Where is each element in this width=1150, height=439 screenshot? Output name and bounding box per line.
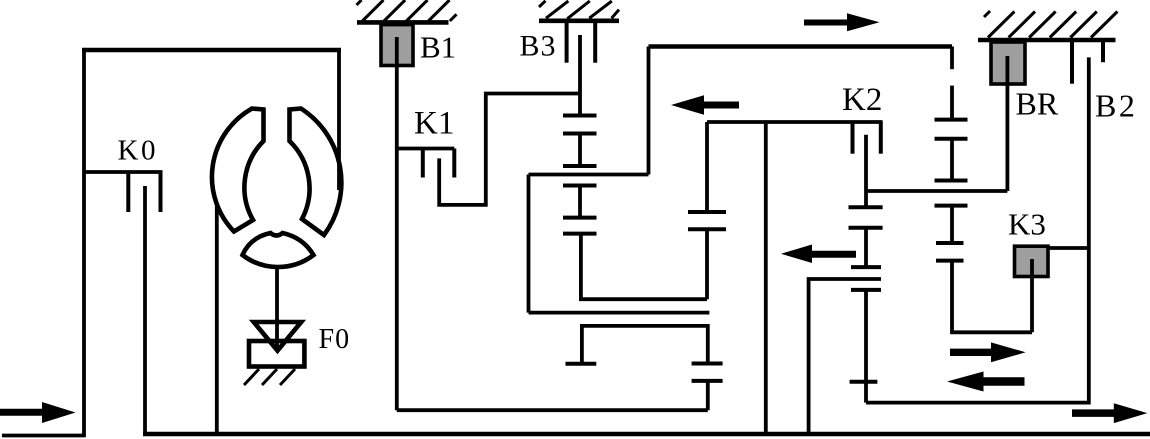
brake B3 plates [565, 23, 569, 63]
wire K2 column lower segment [864, 290, 868, 403]
brake BR housing hatch [978, 11, 1117, 40]
wire B1 shaft bottom horizontal [397, 408, 708, 412]
clutch K0 [84, 172, 163, 212]
gear bar F [563, 232, 597, 236]
wire B3 sun shaft [578, 35, 582, 116]
clutch K1 [397, 149, 455, 178]
wire reverse line [809, 279, 881, 434]
wire right column segment R2-R3 [950, 139, 954, 181]
gear bar R5 [936, 241, 964, 245]
wire carrier path down-right [581, 234, 707, 300]
bottom rail [143, 432, 1150, 437]
input arrow [0, 402, 76, 423]
svg-text:B1: B1 [420, 30, 456, 65]
gear bar R2 [935, 137, 968, 141]
wire right column lower segment [952, 261, 1032, 333]
gear bar counter upper [692, 362, 723, 366]
wire turbine shaft [215, 206, 219, 434]
arrow right top [804, 13, 880, 31]
wire hub riser [764, 122, 768, 434]
wire right column segment R4-R5 [950, 206, 954, 243]
svg-text:K0: K0 [118, 135, 158, 167]
wire B1 shaft vertical [395, 66, 399, 411]
gear bar output right [850, 380, 878, 384]
wire counter gear stem [706, 381, 710, 410]
wire gear segment D-E [578, 186, 582, 218]
gear bar K2b [849, 226, 883, 230]
wire K2 drum line [707, 120, 883, 124]
gear bar mid upper [688, 210, 726, 214]
brake BR piston stem [1006, 56, 1010, 191]
clutch K2 [853, 122, 881, 154]
gear bar R6 [936, 259, 964, 263]
brake B1 piston stem [395, 37, 399, 66]
arrow right middle [950, 342, 1026, 362]
brake BR piston [991, 42, 1025, 84]
wire mid column upper segment [705, 122, 709, 212]
wire bottom-left stub [2, 434, 86, 438]
wire BR link line [866, 189, 1007, 193]
wire ring left riser [527, 175, 531, 313]
stator wedge [243, 233, 314, 267]
wire K2 hub shaft [864, 135, 868, 208]
gear bar R3 [935, 179, 968, 183]
arrow right bottom [1072, 403, 1147, 423]
wire K0 output shaft [143, 186, 147, 434]
brake B2 plate left [1070, 41, 1074, 84]
wire input housing right vertical [337, 48, 341, 190]
svg-text:K3: K3 [1008, 207, 1046, 242]
svg-text:B2: B2 [1095, 88, 1137, 124]
wire gear segment B-C [578, 134, 582, 167]
wire ring right riser [647, 47, 651, 175]
wire ring gear line [529, 173, 649, 177]
gear bar A [563, 114, 597, 118]
wire K2 column segment [864, 228, 868, 267]
gear bar R1 [935, 118, 968, 122]
svg-text:BR: BR [1016, 86, 1059, 122]
left blade [212, 109, 264, 232]
brake B1 piston [381, 25, 413, 66]
gear bar D [563, 184, 597, 188]
svg-text:F0: F0 [319, 324, 351, 355]
wire K3 top link [1048, 246, 1089, 250]
arrow left lower [947, 372, 1025, 392]
wire output gear link [582, 326, 708, 364]
freewheel F0 [244, 322, 304, 385]
svg-text:K1: K1 [414, 106, 454, 142]
wire lower link line [529, 311, 710, 315]
clutch K3 [1015, 246, 1049, 276]
right blade [290, 109, 342, 236]
wire right column riser [950, 47, 954, 70]
brake B1 housing hatch [357, 0, 457, 22]
svg-text:B3: B3 [520, 30, 557, 63]
gear bar E [563, 216, 597, 220]
gear bar output left [566, 362, 597, 366]
gear bar counter lower [692, 379, 723, 383]
gear bar C [563, 164, 597, 168]
wire right column second segment [950, 86, 954, 120]
wire B2 shaft [866, 57, 1089, 402]
wire mid column lower segment [705, 229, 709, 299]
gear bar K2d [851, 288, 881, 292]
brake B2 plate right [1101, 41, 1105, 62]
gear bar K2a [849, 205, 883, 209]
gear bar B [563, 132, 597, 136]
svg-text:K2: K2 [842, 82, 882, 118]
gear bar K2c [851, 265, 881, 269]
clutch K3 stem [1030, 259, 1034, 332]
wire K1 hub path [439, 94, 580, 205]
gear bar R4 [935, 204, 968, 208]
arrow left middle [781, 245, 856, 264]
brake B3 housing hatch [539, 1, 619, 21]
wire stator shaft [275, 266, 279, 350]
wire top link line [649, 44, 953, 49]
arrow left upper [671, 95, 739, 114]
wire input housing left vertical [82, 48, 86, 437]
gear bar mid lower [688, 227, 726, 231]
torque converter [212, 109, 341, 268]
wire input housing top [82, 48, 341, 53]
